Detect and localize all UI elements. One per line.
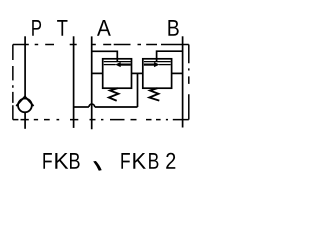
caption B <box>70 153 80 169</box>
relief valve V1 arrowhead (points left) <box>116 62 121 67</box>
wire: P line below check valve to bottom stub <box>24 113 26 129</box>
relief valve body V1 (left box) <box>103 59 132 88</box>
relief valve V2 flow line upper <box>144 61 171 63</box>
port label T <box>57 20 67 36</box>
wire: T port line through drain tee to bottom stub <box>73 36 75 128</box>
caption B <box>149 153 158 169</box>
wire: mid-node riser between valves <box>137 73 139 107</box>
check valve circle <box>18 99 32 113</box>
relief valve V2 arrow shaft <box>144 63 155 65</box>
wire: drain line from T tee to hop <box>74 106 89 108</box>
caption 2 <box>166 153 175 169</box>
module boundary: right chain line <box>188 45 190 120</box>
caption F <box>43 153 52 169</box>
relief valve V2 arrowhead (points right) <box>154 62 159 67</box>
module boundary: bottom chain line <box>13 119 189 121</box>
wire: B port line <box>182 36 184 127</box>
port label B <box>168 20 178 36</box>
wire: right pilot line from B <box>157 51 183 61</box>
relief valve V2 spring <box>149 88 159 100</box>
port label P <box>32 20 41 36</box>
wire: A port line <box>91 36 93 129</box>
relief valve body V2 (right box) <box>143 59 172 88</box>
wire: P port line <box>24 36 26 96</box>
module boundary: top chain line <box>13 44 189 46</box>
relief valve V2 flow line lower <box>159 64 171 66</box>
caption K <box>133 153 146 169</box>
relief valve V1 arrow shaft <box>120 63 131 65</box>
wire: stub between valves <box>132 72 143 74</box>
check valve seat V <box>16 96 33 106</box>
wire: crossover hop over A line <box>89 104 95 107</box>
caption F <box>121 153 130 169</box>
wire: drain line from hop to mid-node riser <box>95 106 138 108</box>
relief valve V1 flow line lower <box>104 64 116 66</box>
caption ideographic comma <box>93 161 102 171</box>
port label A <box>97 20 111 36</box>
relief valve V1 flow line upper <box>104 61 131 63</box>
wire: stub A line to left valve <box>92 72 103 74</box>
caption K <box>55 153 68 169</box>
module boundary: left chain line <box>12 45 14 120</box>
relief valve V1 spring <box>109 88 119 101</box>
wire: left pilot line from A <box>92 51 118 61</box>
wire: stub right valve to B line <box>172 72 183 74</box>
